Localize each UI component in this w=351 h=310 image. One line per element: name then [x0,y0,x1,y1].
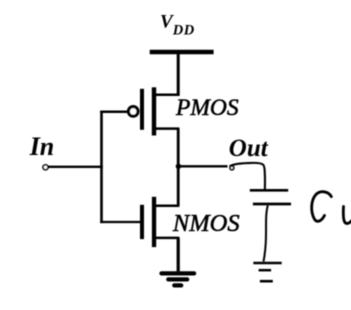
PMOS gate bar [140,89,144,130]
PMOS channel bar [152,87,156,135]
ground (NMOS source) [162,273,195,285]
cap ground bar 3 [260,280,273,283]
wire capacitor CL to ground (hand drawn) [264,206,268,262]
wire In terminal to gate net [48,166,103,168]
PMOS gate bubble [128,107,138,117]
wire VDD rail to PMOS source [177,52,180,96]
power rail VDD [150,50,214,55]
wire Out terminal to capacitor CL (hand drawn) [230,163,265,189]
transistor U1 PMOS [140,87,179,135]
cap ground bar 2 [259,269,272,272]
ground (capacitor CL) [253,263,281,281]
svg-text:Out: Out [229,135,269,162]
svg-text:In: In [29,132,55,161]
PMOS drain lead [156,127,180,130]
output terminal [230,166,234,170]
svg-text:PMOS: PMOS [175,95,239,121]
NMOS channel bar [152,197,156,247]
input terminal [43,165,48,170]
label CL (handwritten) [312,192,351,224]
svg-text:NMOS: NMOS [172,210,240,237]
junction dot output node [176,164,181,169]
letter L [343,207,351,224]
transistor U2 NMOS [140,197,179,247]
wire PMOS drain to output node [177,129,180,167]
capacitor CL bottom plate [253,203,291,206]
capacitor CL top plate [250,189,288,192]
wire gate net to NMOS gate [100,221,140,223]
NMOS source lead [156,237,179,240]
ground bar 1 [162,271,195,275]
NMOS drain lead [156,205,179,208]
wire NMOS source to ground [177,238,180,272]
svg-text:VDD: VDD [160,12,195,39]
wire output node to Out terminal [178,165,227,167]
ground bar 3 [174,283,181,287]
wire gate net to PMOS gate bubble [100,111,128,114]
letter C [312,192,332,222]
PMOS source lead [156,94,180,97]
ground bar 2 [168,277,187,281]
NMOS gate bar [140,205,144,239]
cap ground bar 1 [253,262,281,265]
wire gate net vertical [100,111,103,224]
wire NMOS drain to output node [177,166,180,206]
